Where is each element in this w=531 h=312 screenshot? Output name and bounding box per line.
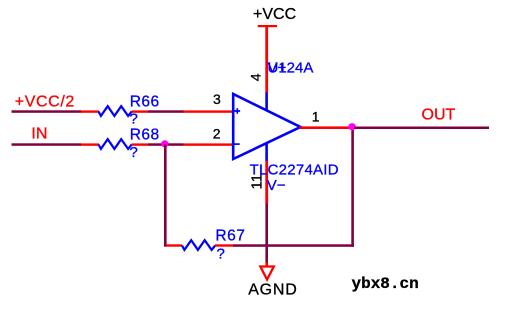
op-amp minus input mark xyxy=(235,143,240,145)
svg-text:R68: R68 xyxy=(130,127,160,144)
svg-text:V+: V+ xyxy=(268,60,287,77)
op-amp pin 3 stub xyxy=(184,110,234,112)
resistor R68 right stub xyxy=(132,143,149,145)
wire AGND red tip xyxy=(265,262,268,266)
resistor R68 left stub xyxy=(81,143,99,145)
svg-text:OUT: OUT xyxy=(422,107,456,124)
junction dot output node xyxy=(348,123,355,130)
wire net OUT xyxy=(354,127,489,130)
op-amp pin 2 stub xyxy=(184,143,234,145)
svg-text:AGND: AGND xyxy=(248,281,297,298)
svg-text:V−: V− xyxy=(267,177,286,194)
resistor R66 zigzag xyxy=(99,106,132,116)
wire +VCC vertical red xyxy=(265,27,268,94)
svg-text:1: 1 xyxy=(312,108,320,124)
op-amp pin 11 blue segment xyxy=(265,143,268,161)
resistor R68 zigzag xyxy=(99,139,132,149)
wire net to pin2 xyxy=(148,143,184,146)
svg-text:?: ? xyxy=(130,144,138,161)
svg-text:2: 2 xyxy=(213,125,221,141)
wire feedback left vertical xyxy=(164,145,167,247)
svg-text:IN: IN xyxy=(31,126,47,143)
wire net IN left segment xyxy=(12,143,82,146)
wire net VCC/2 left segment xyxy=(12,110,82,113)
power symbol +VCC bar xyxy=(258,25,277,27)
wire AGND vertical maroon xyxy=(265,204,268,264)
ground symbol AGND xyxy=(260,267,274,280)
svg-text:4: 4 xyxy=(248,73,264,81)
op-amp pin 11 red segment xyxy=(265,161,268,204)
svg-text:+VCC/2: +VCC/2 xyxy=(15,94,75,111)
junction dot inverting node xyxy=(161,140,168,147)
wire net to pin3 xyxy=(148,110,184,113)
resistor R67 zigzag xyxy=(182,240,215,250)
svg-text:R67: R67 xyxy=(215,228,245,245)
svg-text:ybx8.cn: ybx8.cn xyxy=(352,275,419,293)
op-amp pin 4 blue segment xyxy=(265,93,268,111)
svg-text:?: ? xyxy=(130,111,138,128)
svg-text:11: 11 xyxy=(249,174,266,190)
svg-text:R66: R66 xyxy=(130,93,160,110)
op-amp pin 1 stub xyxy=(300,126,350,129)
wire feedback right vertical xyxy=(351,128,354,247)
resistor R67 right stub xyxy=(215,244,233,246)
resistor R67 left stub xyxy=(166,244,182,246)
svg-text:3: 3 xyxy=(213,91,221,107)
svg-text:+VCC: +VCC xyxy=(253,6,296,23)
svg-text:?: ? xyxy=(217,246,225,263)
resistor R66 right stub xyxy=(132,110,149,112)
op-amp plus input mark xyxy=(235,108,241,114)
wire feedback bottom segment xyxy=(233,244,354,247)
resistor R66 left stub xyxy=(81,110,99,112)
op-amp U1 triangle body xyxy=(233,94,300,159)
